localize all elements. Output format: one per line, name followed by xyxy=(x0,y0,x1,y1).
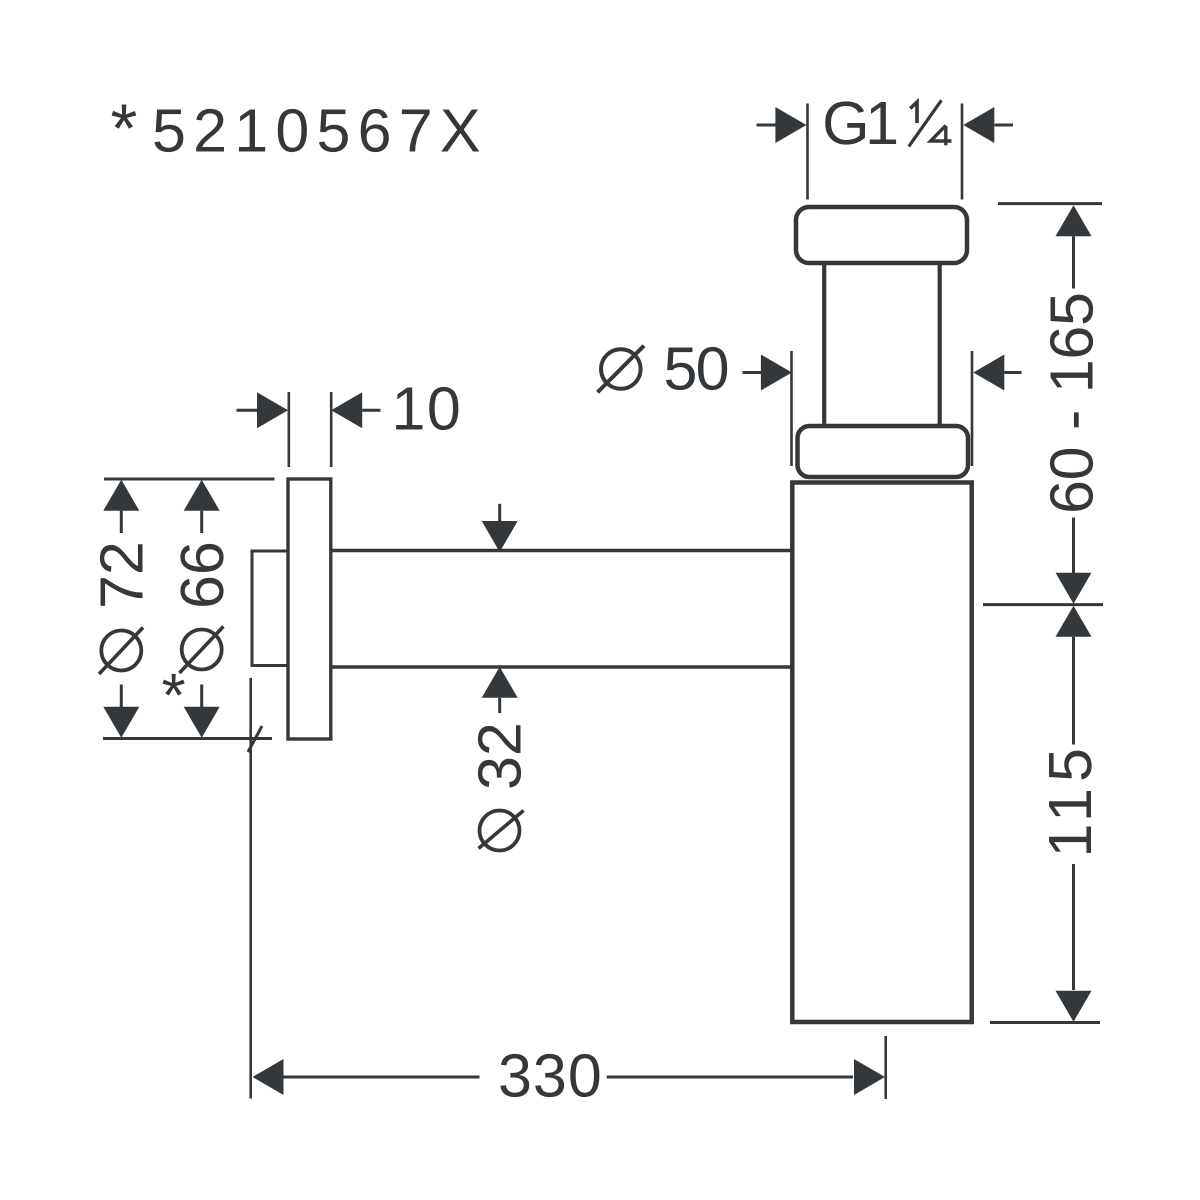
svg-text:115: 115 xyxy=(1036,748,1104,858)
lower coupling nut (trap top flange) xyxy=(798,426,969,477)
svg-text:10: 10 xyxy=(392,375,463,443)
svg-text:330: 330 xyxy=(498,1042,603,1110)
article number label *5210567X xyxy=(111,90,488,167)
svg-text:60 - 165: 60 - 165 xyxy=(1038,292,1106,514)
dimension 10 flange depth xyxy=(237,375,463,468)
dimension 330 wall to trap axis xyxy=(251,678,886,1110)
svg-text:72: 72 xyxy=(88,541,156,609)
svg-text:50: 50 xyxy=(664,334,730,402)
dimension diameter 50 trap body xyxy=(598,334,1022,466)
svg-text:*: * xyxy=(162,662,186,731)
svg-text:66: 66 xyxy=(168,541,236,609)
dimension diameter 66 collar with asterisk xyxy=(162,480,236,738)
vertical tailpipe right wall xyxy=(938,263,942,427)
svg-text:5210567X: 5210567X xyxy=(152,97,488,165)
svg-text:*: * xyxy=(111,90,138,167)
horizontal outlet pipe top wall xyxy=(331,549,792,553)
svg-text:G1: G1 xyxy=(822,89,899,157)
trap body (bottle cup) xyxy=(792,483,971,1023)
upper coupling nut (tailpipe flange) xyxy=(796,207,967,263)
horizontal outlet pipe bottom wall xyxy=(331,665,792,669)
dimension G 1 1/4 thread size xyxy=(757,89,1014,200)
wall collar stub behind flange xyxy=(252,550,288,668)
vertical tailpipe left wall xyxy=(822,263,826,427)
wall flange (escutcheon plate) xyxy=(288,479,331,739)
dimension diameter 32 outlet pipe xyxy=(466,504,534,851)
svg-text:32: 32 xyxy=(466,722,534,790)
dimension diameter 72 flange xyxy=(88,479,275,752)
dimension 60 - 165 telescoping height xyxy=(983,204,1106,605)
dimension 115 body height xyxy=(990,606,1104,1023)
